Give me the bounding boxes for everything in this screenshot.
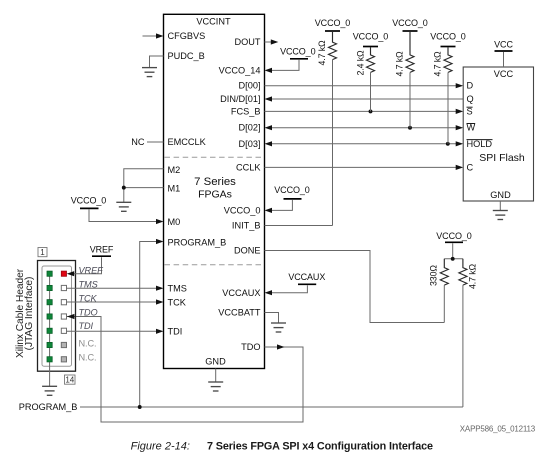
svg-text:VCCO_0: VCCO_0: [392, 18, 428, 28]
svg-text:S: S: [467, 106, 473, 116]
svg-text:(JTAG Interface): (JTAG Interface): [24, 277, 35, 351]
wire VCCO_0 rail to R5/R6: [444, 243, 463, 258]
power symbol VCCAUX: [288, 272, 325, 285]
FPGA U1: 7 Series FPGAs box: [164, 14, 265, 368]
header pin 6 TCK (open): [61, 300, 66, 305]
resistor R4 4.7 kOhm pull-up on D[03]: [444, 47, 452, 72]
svg-text:VCCO_0: VCCO_0: [71, 195, 107, 205]
svg-text:D: D: [467, 81, 474, 91]
junction R3 on D[02] net: [408, 126, 412, 130]
svg-text:TDI: TDI: [168, 327, 183, 337]
svg-text:D[00]: D[00]: [239, 81, 261, 91]
junction PROGRAM_B net: [138, 405, 142, 409]
wire header TCK to FPGA with arrow: [67, 299, 164, 304]
wire FCS_B to flash S with arrow: [265, 109, 464, 114]
power symbol VCCO_0 (VCCO_14 rail): [280, 47, 316, 59]
svg-text:7 Series FPGA SPI x4 Configura: 7 Series FPGA SPI x4 Configuration Inter…: [207, 441, 433, 453]
svg-text:D[03]: D[03]: [239, 139, 261, 149]
power symbol VCCO_0 (R1): [315, 18, 351, 31]
wire INIT_B to R1: [265, 225, 333, 227]
flash pin W (active low): [467, 123, 476, 133]
svg-text:DOUT: DOUT: [234, 37, 260, 47]
svg-text:4.7 kΩ: 4.7 kΩ: [395, 51, 405, 77]
svg-text:DIN/D[01]: DIN/D[01]: [220, 94, 260, 104]
svg-text:C: C: [467, 162, 474, 172]
svg-text:VCC: VCC: [494, 69, 514, 79]
wire into CFGBVS with arrow: [143, 33, 164, 38]
wire VCCO_0 to VCCO_14 with arrow: [265, 60, 300, 73]
header pin 14 N.C. (gray): [61, 357, 66, 362]
wire VCCAUX rail to pin with arrow: [265, 285, 308, 295]
svg-text:CCLK: CCLK: [236, 162, 261, 172]
power symbol VREF: [90, 245, 114, 257]
wire FPGA TDO to header TDO (via bottom) with arrow: [67, 317, 303, 423]
svg-text:W: W: [467, 123, 476, 133]
header pin 2 VREF (red): [61, 271, 66, 276]
resistor R1 4.7 kOhm pull-up on INIT_B: [329, 32, 337, 60]
power symbol VCCO_0 (R4): [430, 31, 466, 46]
wire FPGA GND stem: [215, 369, 217, 382]
wire PROGRAM_B net to R6: [80, 406, 463, 408]
svg-text:CFGBVS: CFGBVS: [168, 31, 206, 41]
ground symbol (VCCBATT): [271, 323, 286, 332]
header pin 4 TMS (open): [61, 285, 66, 290]
wire D[00] to flash D with arrow: [265, 83, 464, 88]
wire CCLK to flash C with arrow: [265, 165, 464, 170]
junction R5/R6 rail: [451, 257, 455, 261]
svg-text:VCCO_0: VCCO_0: [224, 205, 261, 215]
svg-text:14: 14: [65, 376, 74, 385]
svg-text:TMS: TMS: [168, 284, 187, 294]
svg-text:VCCAUX: VCCAUX: [288, 272, 325, 282]
wire header TMS to FPGA with arrow: [67, 286, 164, 291]
header odd pins (GND, green): [47, 271, 52, 362]
power symbol VCCO_0 (DONE/PROGRAM_B pull-ups): [436, 231, 472, 243]
wire VCCO_0 to M0 with arrow: [89, 209, 164, 224]
wire D[02] to flash W with arrows both ends: [265, 125, 464, 130]
junction R2 on FCS_B net: [369, 109, 373, 113]
FPGA internal section divider (dashed) upper: [165, 156, 265, 158]
ground symbol (FPGA GND): [208, 382, 223, 391]
resistor R5 330 Ohm pull-up on DONE: [440, 259, 448, 285]
flash pin S (active low): [467, 106, 473, 116]
power symbol VCC (flash): [494, 40, 513, 51]
ground symbol (flash GND): [493, 211, 508, 220]
svg-text:M1: M1: [168, 184, 181, 194]
svg-text:M2: M2: [168, 165, 181, 175]
svg-text:HOLD: HOLD: [467, 139, 493, 149]
wire VREF rail to header pin 2 with arrow: [67, 257, 102, 276]
svg-text:4.7 kΩ: 4.7 kΩ: [468, 263, 478, 289]
svg-text:VREF: VREF: [90, 245, 114, 255]
svg-text:FPGAs: FPGAs: [198, 189, 232, 201]
resistor R3 4.7 kOhm pull-up on D[02]: [406, 32, 414, 72]
svg-text:XAPP586_05_012113: XAPP586_05_012113: [460, 425, 536, 434]
svg-text:VCCO_0: VCCO_0: [280, 47, 316, 57]
svg-text:2.4 kΩ: 2.4 kΩ: [356, 50, 366, 76]
svg-text:PROGRAM_B: PROGRAM_B: [19, 402, 78, 412]
svg-text:4.7 kΩ: 4.7 kΩ: [433, 51, 443, 77]
svg-text:TCK: TCK: [168, 298, 187, 308]
SPI Flash U2 box: [463, 67, 533, 201]
header pin 12 N.C. (gray): [61, 342, 66, 347]
wire header TDI to FPGA with arrow: [67, 329, 164, 334]
svg-text:VCCO_0: VCCO_0: [315, 18, 351, 28]
wire flash Q to DIN/D[01] with arrow: [265, 96, 464, 101]
figure caption: [131, 441, 433, 453]
svg-text:GND: GND: [205, 357, 226, 367]
pin number 14 label box: [65, 375, 76, 385]
svg-text:PUDC_B: PUDC_B: [168, 51, 205, 61]
svg-text:VCC: VCC: [494, 40, 513, 50]
junction R4 on D[03] net: [446, 142, 450, 146]
svg-text:INIT_B: INIT_B: [232, 221, 261, 231]
svg-text:330Ω: 330Ω: [429, 265, 439, 286]
svg-text:7 Series: 7 Series: [194, 176, 236, 188]
svg-text:VCCO_0: VCCO_0: [274, 185, 310, 195]
svg-text:PROGRAM_B: PROGRAM_B: [168, 238, 227, 248]
power symbol VCCO_0 (M0): [71, 195, 107, 208]
power symbol VCCO_0 (VCCO_0 pin rail): [274, 185, 310, 199]
pin number 1 label box: [38, 248, 47, 258]
FPGA internal section divider (dashed) lower: [165, 264, 265, 266]
header pin 8 TDO (open): [61, 314, 66, 319]
junction M1/M2 ground: [122, 186, 126, 190]
wire D[03] to flash HOLD with arrows both ends: [265, 141, 464, 146]
svg-text:Figure 2-14:: Figure 2-14:: [131, 441, 190, 453]
svg-text:TDO: TDO: [79, 307, 98, 317]
svg-text:Q: Q: [467, 94, 474, 104]
svg-text:1: 1: [40, 248, 45, 257]
svg-text:GND: GND: [490, 190, 511, 200]
FPGA device name label: 7 Series FPGAs: [194, 176, 236, 201]
svg-text:VCCO_0: VCCO_0: [436, 231, 472, 241]
wire header ground column: [49, 274, 51, 386]
ground symbol (M1/M2): [116, 202, 131, 211]
wire PUDC_B to ground: [150, 56, 164, 67]
svg-text:EMCCLK: EMCCLK: [168, 137, 207, 147]
JTAG header inner shroud: [42, 266, 72, 366]
svg-text:SPI Flash: SPI Flash: [479, 152, 525, 164]
svg-text:VCCINT: VCCINT: [196, 17, 231, 27]
ground symbol (PUDC_B): [142, 68, 157, 77]
JTAG cable header J1 outer box: [38, 261, 76, 372]
flash pin HOLD (active low): [467, 139, 493, 149]
wire DOUT output stub with arrow: [265, 39, 279, 44]
header pin 10 TDI (open): [61, 328, 66, 333]
ground symbol (header): [42, 386, 57, 395]
svg-text:VCCAUX: VCCAUX: [222, 288, 260, 298]
wire NC to EMCCLK: [147, 141, 164, 143]
resistor R2 2.4 kOhm pull-up on FCS_B: [367, 47, 375, 72]
svg-text:4.7 kΩ: 4.7 kΩ: [317, 40, 327, 66]
svg-text:VCCBATT: VCCBATT: [218, 308, 261, 318]
resistor R6 4.7 kOhm pull-up on PROGRAM_B: [459, 259, 467, 285]
power symbol VCCO_0 (R3): [392, 18, 428, 31]
wire VCC rail to flash VCC pin: [503, 52, 505, 67]
wire VCCBATT to ground: [265, 313, 279, 323]
wire M1 to ground rail: [124, 187, 164, 189]
svg-text:TDO: TDO: [241, 342, 260, 352]
svg-text:VREF: VREF: [79, 266, 105, 276]
svg-text:N.C.: N.C.: [79, 339, 97, 349]
svg-text:TDI: TDI: [79, 321, 94, 331]
svg-text:VCCO_0: VCCO_0: [353, 31, 389, 41]
wire VCCO_0 rail to VCCO_0 pin with arrow: [265, 200, 293, 213]
svg-text:DONE: DONE: [234, 246, 261, 256]
power symbol VCCO_0 (R2): [353, 31, 389, 46]
svg-text:VCCO_14: VCCO_14: [219, 65, 261, 75]
wire flash GND stem: [499, 201, 501, 210]
wire PROGRAM_B vertical from bottom net with arrow into FPGA: [140, 239, 164, 407]
svg-text:VCCO_0: VCCO_0: [430, 31, 466, 41]
svg-text:FCS_B: FCS_B: [231, 106, 261, 116]
svg-text:NC: NC: [131, 137, 145, 147]
arrow into header TDO pin: [67, 314, 75, 319]
svg-text:N.C.: N.C.: [79, 352, 97, 362]
svg-text:M0: M0: [168, 217, 181, 227]
svg-text:D[02]: D[02]: [239, 123, 261, 133]
wire M2 to ground rail: [124, 169, 164, 202]
wire DONE to R5 330 Ohm: [265, 251, 445, 323]
